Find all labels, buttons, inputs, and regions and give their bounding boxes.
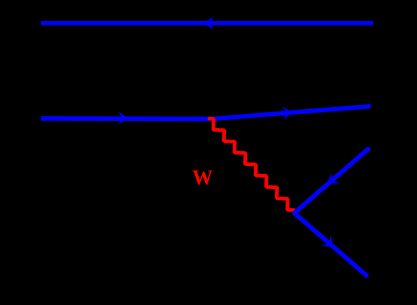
wire: outgoing quark line (rises to right) xyxy=(212,106,371,119)
wire: incoming quark line (left horizontal) xyxy=(41,116,212,121)
arrowhead on incoming quark line pointing right xyxy=(118,111,128,125)
arrowhead on top line pointing left xyxy=(203,17,214,30)
arrowhead on antineutrino line pointing down-left xyxy=(323,172,339,189)
wire: electron line (down-right, arrow away from vertex) xyxy=(294,213,366,276)
wire: top fermion line (arrow pointing left) xyxy=(41,21,373,25)
boson W wavy line xyxy=(209,119,294,211)
arrowhead on electron line pointing down-right xyxy=(322,235,338,252)
arrowhead on outgoing quark line pointing right-up xyxy=(282,106,293,120)
svg-text:W: W xyxy=(192,167,213,189)
wire: antineutrino line (up-right, arrow toward vertex) xyxy=(294,149,368,213)
